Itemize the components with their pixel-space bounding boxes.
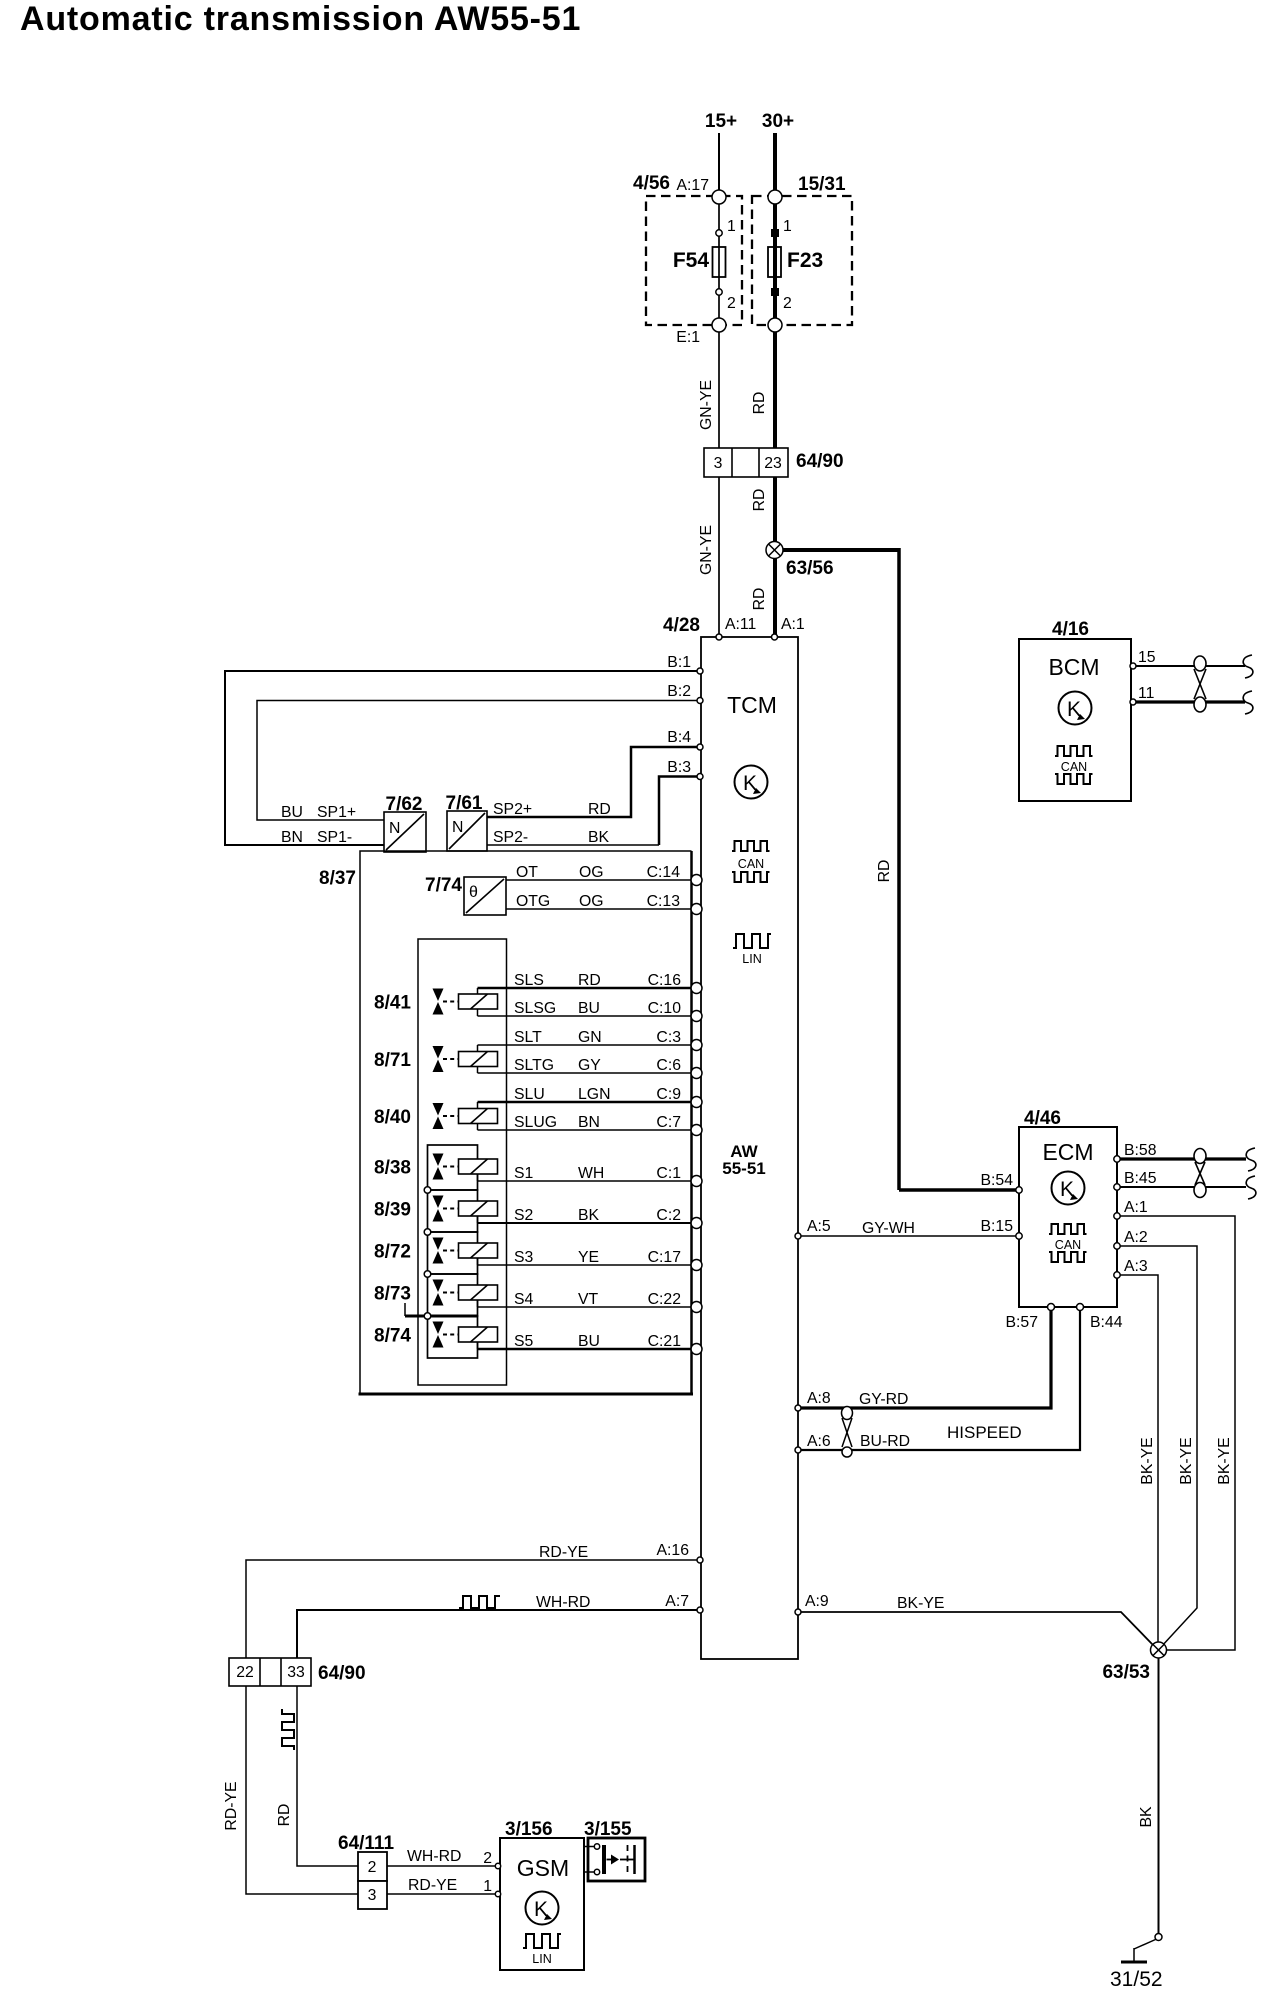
svg-text:11: 11: [1138, 685, 1155, 702]
svg-text:RD: RD: [876, 860, 893, 883]
svg-text:BK: BK: [578, 1207, 600, 1224]
svg-text:55-51: 55-51: [722, 1159, 765, 1178]
wire BK SP2- from TCM B:3 to sensor 7/61: [487, 777, 700, 847]
pin B:45 ECM: [1114, 1170, 1157, 1190]
svg-text:BK-YE: BK-YE: [1178, 1437, 1195, 1484]
svg-text:C:2: C:2: [656, 1207, 681, 1224]
svg-text:BK-YE: BK-YE: [897, 1595, 944, 1612]
svg-text:RD: RD: [751, 489, 768, 512]
svg-text:C:7: C:7: [656, 1114, 681, 1131]
svg-text:SLT: SLT: [514, 1029, 542, 1046]
twisted pair symbol ECM: [1194, 1149, 1206, 1198]
svg-text:BK-YE: BK-YE: [1216, 1437, 1233, 1484]
junction 63/53: [1102, 1642, 1166, 1683]
svg-text:8/39: 8/39: [374, 1200, 411, 1221]
wire 15+ down to A:17: [718, 133, 720, 197]
svg-text:B:4: B:4: [667, 729, 691, 746]
node 15/31 pin 1: [768, 190, 782, 204]
wire GN-YE from E:1 to connector 64/90: [698, 332, 719, 448]
svg-text:GY-WH: GY-WH: [862, 1220, 915, 1237]
svg-text:A:5: A:5: [807, 1218, 831, 1235]
svg-text:WH-RD: WH-RD: [536, 1594, 590, 1611]
svg-text:BU: BU: [281, 804, 303, 821]
pin B:4: [667, 729, 703, 750]
wire LGN SLU to TCM C:9: [478, 1086, 692, 1103]
pin A:1 ECM: [1114, 1199, 1148, 1219]
wire BK-YE from ECM A:2 to 63/53: [1117, 1246, 1197, 1647]
pin 15 BCM: [1130, 649, 1156, 669]
svg-text:7/62: 7/62: [386, 794, 423, 815]
wire GN SLT to TCM C:3: [478, 1029, 692, 1046]
svg-text:15/31: 15/31: [798, 174, 846, 195]
solenoid 8/38: [374, 1145, 498, 1190]
svg-text:θ: θ: [469, 884, 478, 901]
svg-text:S3: S3: [514, 1249, 534, 1266]
solenoid 8/73: [374, 1274, 498, 1316]
svg-text:A:1: A:1: [1124, 1199, 1148, 1216]
svg-text:RD-YE: RD-YE: [539, 1544, 588, 1561]
svg-text:8/40: 8/40: [374, 1107, 411, 1128]
solenoid 8/72: [374, 1232, 498, 1274]
svg-text:64/111: 64/111: [338, 1833, 394, 1854]
svg-text:BK: BK: [588, 829, 610, 846]
wire GN-YE from connector to TCM A:11: [698, 477, 719, 637]
svg-text:C:9: C:9: [656, 1086, 681, 1103]
svg-text:4/28: 4/28: [663, 615, 700, 636]
svg-text:CAN: CAN: [738, 857, 764, 871]
K symbol BCM: [1059, 692, 1092, 725]
svg-text:3/155: 3/155: [584, 1819, 632, 1840]
svg-text:15: 15: [1138, 649, 1156, 666]
wire break squiggle BCM 15: [1243, 655, 1253, 678]
twisted pair symbol HISPEED: [842, 1407, 853, 1458]
wire 30+ down to fuse F23: [773, 133, 777, 197]
svg-text:1: 1: [727, 218, 736, 235]
svg-text:A:8: A:8: [807, 1390, 831, 1407]
svg-text:LGN: LGN: [578, 1086, 610, 1103]
pin A:9 TCM: [795, 1593, 829, 1615]
svg-text:C:17: C:17: [648, 1249, 681, 1266]
svg-text:8/72: 8/72: [374, 1242, 411, 1263]
wire ECM B:45 to CAN bus: [1117, 1186, 1246, 1188]
svg-text:B:57: B:57: [1006, 1314, 1039, 1331]
svg-text:BU: BU: [578, 1000, 600, 1017]
svg-text:TCM: TCM: [727, 692, 777, 718]
connector 64/111: [338, 1833, 394, 1909]
LIN symbol GSM: [523, 1934, 561, 1966]
wire BU SP1+ from TCM B:2 to sensor 7/62: [257, 701, 700, 822]
svg-text:63/53: 63/53: [1102, 1662, 1150, 1683]
CAN symbol BCM: [1055, 746, 1093, 784]
ground terminal 31/52: [1110, 1934, 1163, 1992]
pin B:2: [667, 683, 703, 704]
control module TCM 4/28: [663, 615, 798, 1659]
svg-text:4/16: 4/16: [1052, 619, 1089, 640]
svg-text:CAN: CAN: [1061, 760, 1087, 774]
junction solenoid box 1190: [424, 1187, 431, 1194]
wire RD SP2+ from TCM B:4 to sensor 7/61: [487, 747, 700, 818]
svg-text:RD-YE: RD-YE: [223, 1781, 240, 1830]
svg-text:S4: S4: [514, 1291, 534, 1308]
pin B:15 ECM: [981, 1218, 1023, 1239]
junction solenoid box 1232: [424, 1229, 431, 1236]
svg-text:OG: OG: [579, 864, 604, 881]
svg-text:GN: GN: [578, 1029, 602, 1046]
pin B:54 ECM: [981, 1172, 1023, 1193]
wire RD-YE from 64/111 to GSM pin 1: [387, 1877, 497, 1894]
svg-text:8/38: 8/38: [374, 1158, 411, 1179]
svg-text:GY: GY: [578, 1057, 601, 1074]
label AW 55-51: [722, 1142, 765, 1178]
svg-text:BU: BU: [578, 1333, 600, 1350]
svg-text:B:58: B:58: [1124, 1142, 1157, 1159]
switch 3/155: [584, 1819, 645, 1881]
svg-text:2: 2: [483, 1850, 492, 1867]
wire YE S3 to TCM C:17: [478, 1249, 692, 1266]
svg-text:A:7: A:7: [665, 1593, 689, 1610]
svg-text:S1: S1: [514, 1165, 534, 1182]
svg-text:2: 2: [368, 1859, 377, 1876]
svg-text:A:2: A:2: [1124, 1229, 1148, 1246]
K symbol ECM: [1052, 1172, 1085, 1205]
svg-text:C:21: C:21: [648, 1333, 682, 1350]
svg-text:2: 2: [783, 295, 792, 312]
K symbol GSM: [526, 1892, 559, 1925]
svg-text:LIN: LIN: [742, 952, 761, 966]
node 30+ supply: [762, 111, 794, 197]
svg-text:S2: S2: [514, 1207, 533, 1224]
node E:1: [712, 318, 726, 332]
junction solenoid box 1274: [424, 1271, 431, 1278]
pin B:57 ECM: [1006, 1304, 1055, 1332]
svg-text:GN-YE: GN-YE: [698, 525, 715, 575]
CAN symbol ECM: [1049, 1224, 1087, 1262]
solenoid 8/74: [374, 1316, 498, 1358]
fuse F23: [768, 218, 823, 312]
svg-text:31/52: 31/52: [1110, 1968, 1163, 1991]
svg-text:SLUG: SLUG: [514, 1114, 557, 1131]
pin B:1: [667, 654, 703, 674]
svg-text:Automatic transmission AW55-51: Automatic transmission AW55-51: [20, 0, 581, 38]
pin A:7 TCM: [665, 1593, 703, 1613]
svg-text:4/56: 4/56: [633, 173, 670, 194]
svg-text:22: 22: [236, 1664, 254, 1681]
speed sensor 7/61: [446, 793, 487, 851]
twisted pair symbol BCM: [1194, 656, 1206, 712]
svg-text:8/41: 8/41: [374, 993, 411, 1014]
signal symbol on RD wire: [282, 1709, 294, 1750]
svg-text:3: 3: [714, 455, 723, 472]
svg-text:GY-RD: GY-RD: [859, 1391, 908, 1408]
control module BCM 4/16: [1019, 619, 1131, 801]
wire BU S5 to TCM C:21: [478, 1333, 692, 1350]
svg-text:C:10: C:10: [648, 1000, 682, 1017]
svg-text:N: N: [389, 820, 400, 837]
pin A:6 TCM: [795, 1433, 831, 1453]
svg-text:3: 3: [368, 1887, 377, 1904]
wire BK S2 to TCM C:2: [478, 1207, 692, 1224]
svg-text:8/37: 8/37: [319, 868, 356, 889]
svg-text:C:22: C:22: [648, 1291, 681, 1308]
wire RD branch from 63/56 to ECM B:54: [775, 548, 1019, 1190]
svg-text:B:1: B:1: [667, 654, 691, 671]
svg-text:B:15: B:15: [981, 1218, 1014, 1235]
svg-text:WH: WH: [578, 1165, 604, 1182]
wire BK-YE from ECM A:3 to 63/53: [1117, 1275, 1158, 1644]
connector 64/90 pins 3 and 23: [704, 448, 844, 477]
wire GN-YE from A:17 through fuse F54 to E:1: [718, 197, 720, 325]
inner solenoid box: [418, 939, 507, 1385]
svg-text:YE: YE: [578, 1249, 599, 1266]
control module GSM 3/156: [500, 1819, 584, 1970]
wire RD from connector through 63/56 to TCM A:1: [751, 477, 775, 637]
svg-text:BN: BN: [281, 829, 303, 846]
svg-text:BCM: BCM: [1048, 654, 1099, 680]
svg-text:E:1: E:1: [676, 329, 700, 346]
svg-text:SP1+: SP1+: [317, 804, 356, 821]
pin B:58 ECM: [1114, 1142, 1157, 1162]
svg-text:CAN: CAN: [1055, 1238, 1081, 1252]
wire WH-RD from 64/111 to GSM pin 2: [387, 1848, 497, 1866]
svg-text:A:1: A:1: [781, 616, 805, 633]
svg-text:RD: RD: [276, 1804, 293, 1827]
svg-text:BK-YE: BK-YE: [1139, 1437, 1156, 1484]
pin A:16 TCM: [657, 1542, 704, 1563]
wire VT S4 to TCM C:22: [478, 1291, 692, 1308]
node 15/31 pin 2: [768, 318, 782, 332]
svg-text:SLU: SLU: [514, 1086, 545, 1103]
svg-text:RD: RD: [578, 972, 601, 989]
svg-text:B:3: B:3: [667, 759, 691, 776]
svg-text:15+: 15+: [705, 111, 737, 132]
wire ECM B:58 to CAN bus: [1117, 1157, 1246, 1160]
svg-text:SLTG: SLTG: [514, 1057, 554, 1074]
svg-text:S5: S5: [514, 1333, 534, 1350]
svg-text:F54: F54: [673, 249, 710, 272]
junction solenoid box 1316: [424, 1313, 431, 1320]
svg-text:64/90: 64/90: [796, 451, 844, 472]
svg-text:C:16: C:16: [648, 972, 682, 989]
wire RD-YE from TCM A:16 to connector 64/90 pin 22: [246, 1544, 700, 1658]
svg-text:1: 1: [783, 218, 792, 235]
pin A:8 TCM: [795, 1390, 831, 1411]
svg-text:A:17: A:17: [677, 177, 710, 194]
svg-text:N: N: [452, 819, 463, 836]
svg-text:23: 23: [764, 455, 782, 472]
svg-text:B:54: B:54: [981, 1172, 1014, 1189]
svg-text:SLSG: SLSG: [514, 1000, 556, 1017]
fuse F54: [673, 218, 736, 312]
wire GY-RD from TCM A:8 to ECM B:57: [798, 1307, 1051, 1408]
svg-text:BU-RD: BU-RD: [860, 1433, 910, 1450]
fuse box 15/31 (dashed): [752, 174, 852, 325]
wire GY SLTG to TCM C:6: [478, 1057, 692, 1074]
svg-text:GSM: GSM: [517, 1855, 569, 1881]
svg-text:SLS: SLS: [514, 972, 544, 989]
solenoid 8/41: [374, 988, 498, 1016]
wire BCM pin 15 to CAN bus: [1133, 665, 1245, 667]
svg-text:RD-YE: RD-YE: [408, 1877, 457, 1894]
svg-text:33: 33: [287, 1664, 305, 1681]
svg-text:OTG: OTG: [516, 893, 550, 910]
svg-text:WH-RD: WH-RD: [407, 1848, 461, 1865]
pin A:5 TCM: [795, 1218, 831, 1239]
CAN symbol TCM: [732, 841, 770, 882]
wire BN SLUG to TCM C:7: [478, 1114, 692, 1131]
solenoid group box 8/37: [319, 851, 693, 1394]
svg-text:7/61: 7/61: [446, 793, 483, 814]
svg-text:7/74: 7/74: [425, 875, 462, 896]
svg-text:2: 2: [727, 295, 736, 312]
wire RD SLS to TCM C:16: [478, 972, 692, 989]
wire BK-YE from TCM A:9 to junction 63/53: [798, 1595, 1153, 1645]
LIN symbol TCM: [733, 934, 771, 966]
svg-text:B:2: B:2: [667, 683, 691, 700]
svg-text:C:13: C:13: [647, 893, 681, 910]
svg-text:30+: 30+: [762, 111, 794, 132]
pin 1 GSM: [483, 1878, 500, 1897]
wire break squiggle ECM B:58: [1246, 1148, 1256, 1171]
svg-text:GN-YE: GN-YE: [698, 380, 715, 430]
svg-text:RD: RD: [588, 801, 611, 818]
svg-text:RD: RD: [751, 392, 768, 415]
wire BU-RD from TCM A:6 to ECM B:44: [798, 1307, 1080, 1450]
svg-text:A:11: A:11: [725, 616, 757, 633]
wire break squiggle BCM 11: [1243, 691, 1253, 714]
wire BK-YE from ECM A:1 to 63/53: [1117, 1216, 1235, 1650]
svg-text:63/56: 63/56: [786, 558, 834, 579]
svg-text:SP2+: SP2+: [493, 801, 532, 818]
svg-text:SP2-: SP2-: [493, 829, 528, 846]
wire RD from connector 33 to 64/111 pin 2: [276, 1686, 358, 1866]
svg-text:C:3: C:3: [656, 1029, 681, 1046]
svg-text:8/73: 8/73: [374, 1284, 411, 1305]
pin A:3 ECM: [1114, 1258, 1148, 1278]
pin A:1: [772, 616, 805, 640]
wire RD from 15/31 to connector 64/90: [751, 332, 775, 448]
node 15+ supply: [705, 111, 737, 197]
svg-text:3/156: 3/156: [505, 1819, 553, 1840]
solenoid 8/39: [374, 1190, 498, 1232]
K symbol TCM: [735, 766, 768, 799]
pin A:2 ECM: [1114, 1229, 1148, 1249]
solenoid 8/71: [374, 1045, 498, 1073]
TCM C-pins: [691, 875, 702, 1355]
temperature sensor 7/74: [425, 875, 506, 915]
pin B:3: [667, 759, 703, 780]
svg-text:A:3: A:3: [1124, 1258, 1148, 1275]
svg-text:1: 1: [483, 1878, 492, 1895]
svg-text:HISPEED: HISPEED: [947, 1423, 1022, 1442]
connector 64/90 pins 22 and 33: [229, 1658, 366, 1686]
wire RD through fuse F23: [773, 197, 777, 325]
wire BU SLSG to TCM C:10: [478, 1000, 692, 1017]
wire BK from 63/53 to ground: [1138, 1658, 1159, 1934]
pin 2 GSM: [483, 1850, 500, 1869]
signal symbol on WH-RD wire: [459, 1596, 500, 1608]
wire BN SP1- from TCM B:1 to sensor 7/62: [225, 671, 700, 846]
svg-text:BN: BN: [578, 1114, 600, 1131]
svg-text:F23: F23: [787, 249, 823, 272]
node A:17: [712, 190, 726, 204]
wire WH-RD from TCM A:7 to connector 64/90 pin 33: [297, 1594, 700, 1658]
svg-text:B:45: B:45: [1124, 1170, 1157, 1187]
speed sensor 7/62: [384, 794, 426, 852]
junction 63/56: [766, 542, 834, 580]
svg-text:A:16: A:16: [657, 1542, 690, 1559]
svg-text:8/74: 8/74: [374, 1326, 411, 1347]
svg-text:64/90: 64/90: [318, 1663, 366, 1684]
svg-text:C:14: C:14: [647, 864, 681, 881]
wire OG OT from sensor 7/74 to TCM C:14: [506, 864, 691, 881]
svg-text:4/46: 4/46: [1024, 1108, 1061, 1129]
svg-text:LIN: LIN: [532, 1952, 551, 1966]
svg-text:A:9: A:9: [805, 1593, 829, 1610]
svg-text:RD: RD: [751, 588, 768, 611]
wire OG OTG from sensor 7/74 to TCM C:13: [506, 893, 691, 910]
svg-text:VT: VT: [578, 1291, 599, 1308]
control module ECM 4/46: [1019, 1108, 1117, 1307]
pin A:11: [716, 616, 757, 640]
svg-text:C:1: C:1: [656, 1165, 681, 1182]
svg-text:OG: OG: [579, 893, 604, 910]
svg-text:C:6: C:6: [656, 1057, 681, 1074]
solenoid 8/40: [374, 1102, 498, 1130]
pin B:44 ECM: [1077, 1304, 1123, 1332]
fuse box 4/56 (dashed): [633, 173, 742, 325]
wire break squiggle ECM B:45: [1246, 1176, 1256, 1199]
wire GY-WH from TCM A:5 to ECM B:15: [798, 1220, 1019, 1237]
svg-text:A:6: A:6: [807, 1433, 831, 1450]
svg-text:ECM: ECM: [1042, 1139, 1093, 1165]
wire WH S1 to TCM C:1: [478, 1165, 692, 1182]
svg-text:BK: BK: [1138, 1806, 1155, 1828]
svg-text:8/71: 8/71: [374, 1050, 411, 1071]
wire common link solenoid boxes: [405, 1303, 477, 1316]
svg-text:B:44: B:44: [1090, 1314, 1123, 1331]
svg-text:OT: OT: [516, 864, 538, 881]
svg-text:SP1-: SP1-: [317, 829, 352, 846]
pin 11 BCM: [1130, 685, 1155, 705]
wire BCM pin 11 to CAN bus: [1133, 700, 1245, 703]
wire RD-YE from connector 22 to 64/111 pin 3: [223, 1686, 358, 1894]
label BK-YE x3: [1139, 1437, 1233, 1484]
